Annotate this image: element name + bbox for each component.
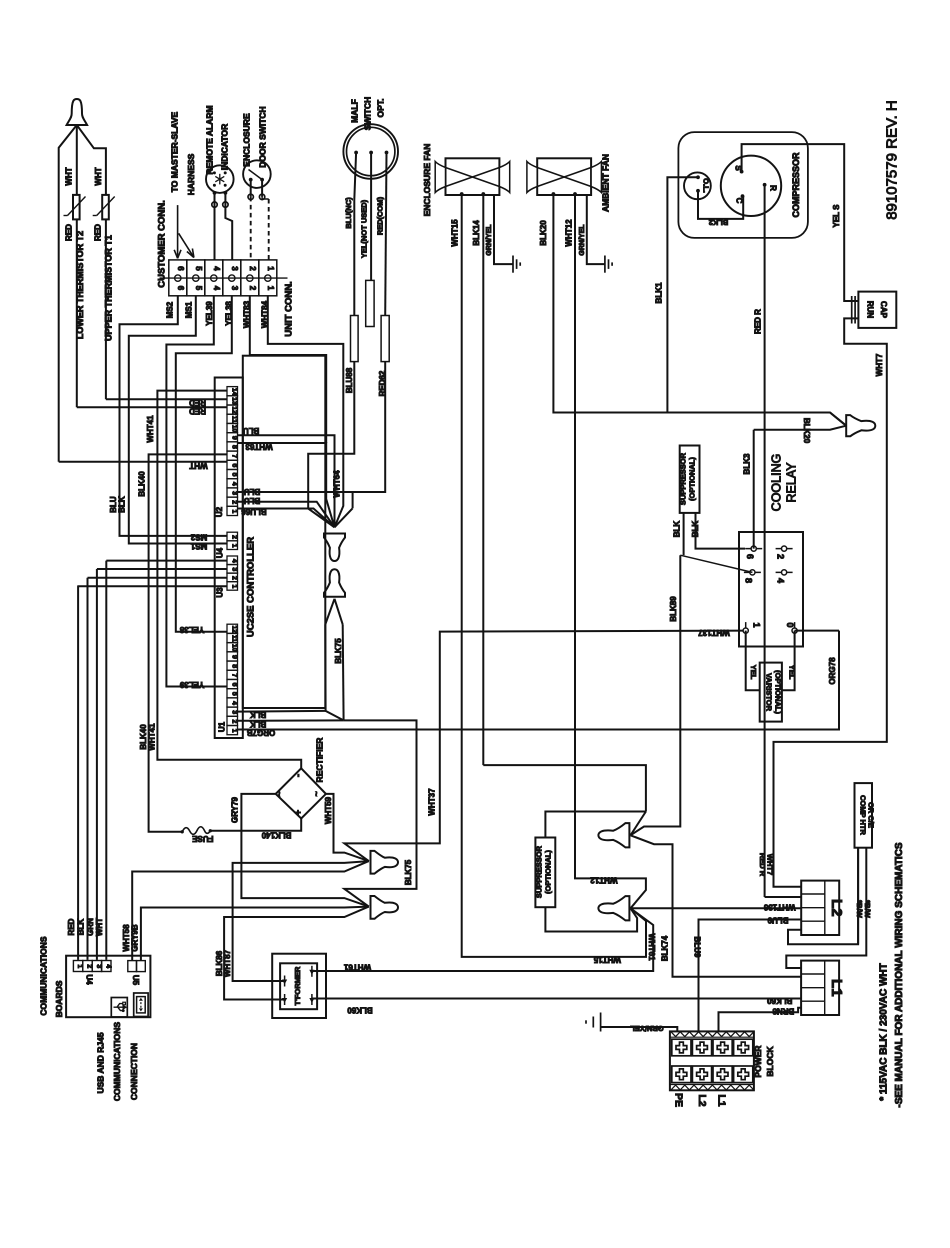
svg-text:1: 1 — [752, 622, 762, 627]
label BRN8 — [772, 1006, 794, 1015]
svg-text:5: 5 — [230, 473, 237, 477]
svg-text:BLK1: BLK1 — [655, 282, 664, 303]
svg-text:BLOCK: BLOCK — [765, 1046, 775, 1077]
svg-text:3: 3 — [230, 266, 239, 271]
label U3 — [216, 587, 225, 598]
svg-text:POWER: POWER — [753, 1045, 763, 1077]
wire BLK40 U2 pin7 — [149, 454, 227, 831]
door switch contacts — [249, 170, 265, 182]
connector U4 2-pin strip — [227, 532, 238, 549]
svg-text:MS2: MS2 — [166, 301, 175, 318]
svg-text:BLK75: BLK75 — [334, 638, 343, 664]
thermistor T2 — [64, 195, 86, 220]
label BLU pin3 — [244, 487, 261, 496]
svg-text:UC2SE CONTROLLER: UC2SE CONTROLLER — [246, 537, 257, 637]
svg-text:WHT7: WHT7 — [765, 854, 774, 875]
svg-text:7: 7 — [230, 454, 237, 458]
label BLK86 — [215, 950, 224, 976]
svg-text:ENCLOSURE FAN: ENCLOSURE FAN — [422, 144, 432, 217]
wire comms WHT — [105, 561, 107, 960]
wire U3 pin2 row — [97, 568, 227, 570]
ambient fan — [527, 158, 602, 195]
svg-text:WHT41: WHT41 — [146, 415, 155, 443]
svg-text:ORG7B: ORG7B — [247, 728, 276, 737]
connector L2 — [801, 881, 845, 935]
label U4 — [216, 547, 225, 558]
label WHT T2 — [65, 167, 74, 185]
title 89107579 REV. H — [884, 100, 901, 220]
svg-text:12: 12 — [230, 406, 237, 414]
svg-text:BLU66: BLU66 — [241, 507, 267, 516]
label BLK74 — [661, 935, 670, 961]
svg-text:RELAY: RELAY — [785, 462, 799, 503]
svg-text:BLU(NC): BLU(NC) — [344, 197, 353, 229]
svg-text:7: 7 — [230, 673, 237, 677]
label BLK75 upper — [334, 638, 343, 664]
svg-text:2: 2 — [230, 500, 237, 504]
relay pin 2 — [776, 546, 793, 559]
wire rectifier bottom BLK140 — [210, 819, 301, 831]
svg-text:YEL39: YEL39 — [179, 680, 204, 689]
svg-text:COMMUNICATIONS: COMMUNICATIONS — [112, 1022, 122, 1101]
svg-text:3: 3 — [230, 567, 237, 571]
svg-text:2: 2 — [86, 964, 93, 968]
label BLK89 — [669, 596, 678, 622]
svg-text:COMPRESSOR: COMPRESSOR — [791, 152, 801, 218]
wire BLK U1 pin3 — [238, 710, 326, 713]
label BLK U1pin2 — [250, 719, 267, 728]
wire BLK20 vertical — [553, 194, 846, 426]
cooling relay box — [739, 532, 803, 647]
svg-text:4: 4 — [212, 286, 221, 291]
label U5 — [131, 975, 140, 986]
svg-text:0: 0 — [785, 622, 795, 627]
svg-text:UPPER THERMISTOR T1: UPPER THERMISTOR T1 — [104, 235, 114, 341]
BLU88 splice rect — [351, 316, 359, 362]
compressor terminal S — [734, 165, 744, 173]
label LOWER THERMISTOR T2 — [75, 231, 85, 339]
wire BLK89 — [631, 555, 681, 835]
RED62 splice rect — [381, 316, 389, 362]
svg-text:MS1: MS1 — [185, 301, 194, 318]
label YEL S — [832, 204, 841, 228]
connector L1 — [801, 961, 845, 1015]
label COOLING — [769, 454, 783, 512]
svg-text:WHT64: WHT64 — [333, 470, 342, 498]
transformer outer box — [272, 954, 326, 1018]
svg-text:CUSTOMER CONN.: CUSTOMER CONN. — [157, 200, 168, 287]
svg-text:BLU: BLU — [244, 496, 261, 505]
wire WHT83 — [250, 296, 326, 443]
connector mid line — [160, 277, 288, 279]
label RED comms — [67, 918, 76, 935]
svg-text:BLK60: BLK60 — [347, 1006, 373, 1015]
enclosure door switch circle — [243, 160, 271, 188]
label WHT64 — [333, 470, 342, 498]
label VARISTOR — [765, 673, 774, 712]
label MALF — [350, 99, 360, 123]
wire WHT41 U2 pin14 — [157, 391, 301, 769]
label O.L. — [702, 178, 711, 193]
label MS1 at U4 — [190, 541, 207, 550]
relay pin 1 — [743, 622, 761, 639]
label B/W 2 — [863, 900, 872, 918]
svg-text:BLK: BLK — [250, 719, 267, 728]
transformer pin left1 — [282, 976, 287, 987]
relay pin 0 — [785, 622, 797, 639]
remote alarm terminal dots — [213, 191, 228, 195]
wire MS2 (BLU) — [120, 296, 228, 536]
comms U5 connector — [128, 961, 146, 972]
label SWITCH — [363, 97, 373, 131]
compressor outline — [678, 132, 808, 238]
svg-text:9: 9 — [230, 655, 237, 659]
wire T1 below resistor — [105, 219, 107, 399]
wire ORG78 pin0 — [795, 630, 839, 632]
label BLK ms — [118, 496, 127, 513]
suppressor low wire top — [545, 812, 646, 838]
label BLU pin2 — [244, 496, 261, 505]
rectifier diamond — [276, 768, 326, 818]
svg-text:BLK2: BLK2 — [709, 218, 729, 227]
svg-text:RED: RED — [189, 406, 206, 415]
svg-text:RUN: RUN — [866, 301, 875, 319]
svg-text:L2: L2 — [828, 899, 845, 917]
svg-text:4: 4 — [776, 578, 786, 583]
label WHT63 — [245, 442, 273, 451]
wire BLU66 U2 pin1 — [238, 509, 335, 528]
overload terminal dots — [696, 175, 700, 192]
svg-text:13: 13 — [230, 397, 237, 405]
wire comms GRN — [96, 569, 98, 960]
label BLU9 at L2 — [767, 916, 788, 925]
svg-text:~: ~ — [275, 791, 285, 796]
wire B/W 2 — [786, 848, 866, 968]
wire GRY9B — [141, 907, 369, 961]
wire WHT63 U2 pin8 — [238, 443, 335, 527]
suppressor low wire bottom — [545, 907, 637, 931]
enclosure fan terminals — [460, 192, 485, 196]
svg-text:*B/W: *B/W — [863, 900, 872, 918]
remote alarm lamp symbol — [213, 171, 227, 186]
funnel diag BLU88 — [308, 509, 334, 528]
svg-text:BLK: BLK — [118, 496, 127, 513]
svg-text:BLK140: BLK140 — [261, 830, 291, 839]
svg-text:OPT.: OPT. — [376, 99, 386, 118]
svg-text:REMOTE ALARM: REMOTE ALARM — [205, 105, 215, 174]
svg-text:BRN8: BRN8 — [772, 1006, 794, 1015]
label POWER — [753, 1045, 763, 1077]
label REMOTE ALARM — [205, 105, 215, 174]
label WHT61 riser — [647, 933, 656, 961]
svg-text:U4: U4 — [85, 974, 94, 985]
label OPTIONAL up — [688, 457, 697, 501]
wire switch left solid — [250, 180, 252, 197]
svg-text:PE: PE — [673, 1093, 685, 1107]
label RED R comp — [754, 309, 763, 334]
funnel diag RED62 — [335, 508, 353, 527]
wire BLK14 vertical — [482, 194, 484, 765]
label BLK sup2 — [691, 521, 700, 538]
svg-text:L1: L1 — [716, 1094, 728, 1106]
wire WHT12 vertical — [575, 194, 646, 908]
ground symbol enclosure fan — [513, 256, 520, 273]
svg-text:*B/W: *B/W — [855, 900, 864, 918]
svg-text:10: 10 — [230, 644, 237, 652]
label WHT comms — [95, 918, 104, 936]
label BLK60 horiz — [347, 1006, 373, 1015]
remote alarm connector dots — [212, 202, 228, 207]
label PE — [673, 1093, 685, 1107]
svg-text:BLU: BLU — [244, 487, 261, 496]
wire U3 pin3 row — [88, 577, 228, 579]
svg-text:MS2: MS2 — [190, 533, 207, 542]
svg-text:SWITCH: SWITCH — [363, 97, 373, 131]
svg-text:BLK74: BLK74 — [661, 935, 670, 961]
svg-text:YEL: YEL — [788, 665, 797, 680]
svg-text:14: 14 — [230, 388, 237, 396]
label CUSTOMER CONN. — [157, 200, 168, 287]
suppressor up wire right — [696, 513, 746, 549]
svg-text:BLU9: BLU9 — [692, 937, 701, 958]
svg-text:DOOR SWITCH: DOOR SWITCH — [258, 106, 268, 167]
wire PE to ground — [601, 1027, 678, 1031]
run cap box — [858, 292, 896, 328]
svg-text:BLK14: BLK14 — [472, 220, 481, 246]
label MS2 at U4 — [190, 533, 207, 542]
suppressor up wire left — [683, 513, 685, 555]
svg-text:U5: U5 — [131, 975, 140, 986]
label MS2 — [166, 301, 175, 318]
svg-text:BLU88: BLU88 — [345, 367, 354, 393]
svg-text:YEL S: YEL S — [832, 204, 841, 228]
label BLU66 — [241, 507, 267, 516]
svg-text:INDICATOR: INDICATOR — [220, 124, 230, 170]
svg-text:BLK: BLK — [673, 521, 682, 538]
svg-text:GRN/YEL: GRN/YEL — [579, 224, 586, 256]
wire BLK86 — [224, 907, 369, 1000]
enclosure fan — [435, 158, 510, 195]
svg-text:GRN/YEL: GRN/YEL — [486, 224, 493, 256]
funnel C BLK14 diag — [631, 812, 646, 836]
svg-text:HARNESS: HARNESS — [186, 153, 196, 195]
wire MS1 (BLK) — [129, 296, 227, 544]
wire WHT15 vertical — [462, 194, 646, 957]
label ORG7B — [247, 728, 276, 737]
wire RED62 lower — [353, 362, 386, 509]
label ENCLOSURE — [242, 113, 252, 167]
label T'FORMER — [293, 966, 302, 1005]
svg-text:11: 11 — [230, 416, 237, 423]
svg-text:RED: RED — [67, 918, 76, 935]
relay pin 6 — [745, 546, 762, 559]
wire BLU U2 pin9 to WHT64 bullet — [238, 435, 335, 527]
label BLK40 upper — [137, 471, 146, 497]
svg-text:4: 4 — [230, 701, 237, 705]
wire WHT59 — [326, 794, 369, 861]
label YEL left — [749, 665, 758, 680]
label DOOR SWITCH — [258, 106, 268, 167]
svg-text:FUSE: FUSE — [191, 834, 213, 843]
svg-text:GRN: GRN — [86, 918, 95, 936]
svg-text:O.L.: O.L. — [702, 178, 711, 193]
connector U1 12-pin strip — [227, 624, 238, 735]
label SUPPRESSOR low — [535, 845, 544, 898]
label GRY9B — [131, 924, 140, 951]
wire YEL(NOT USED) — [370, 153, 372, 281]
label WHT61 horiz — [343, 962, 371, 971]
wire RED R full drop — [764, 185, 766, 897]
compressor motor circle — [721, 156, 781, 216]
svg-text:WHT15: WHT15 — [451, 219, 460, 247]
label ENCLOSURE FAN — [422, 144, 432, 217]
label BLK75 lower — [404, 859, 413, 885]
svg-text:UNIT CONN.: UNIT CONN. — [284, 281, 295, 336]
wire BLK75 to lower bullet — [344, 720, 417, 906]
label TO MASTER-SLAVE — [170, 111, 180, 192]
door switch connector dots — [248, 194, 265, 199]
wire YEL S from terminal S — [742, 144, 859, 301]
ground symbol PE — [586, 1013, 601, 1032]
wire probe to T2 WHT return — [59, 125, 77, 462]
svg-text:WHT: WHT — [65, 167, 74, 185]
svg-text:SUPPRESSOR: SUPPRESSOR — [535, 845, 544, 898]
label L1 pb — [716, 1094, 728, 1106]
compressor overload circle — [684, 172, 711, 199]
svg-text:ORG78: ORG78 — [828, 657, 837, 685]
label COMMUNICATIONS — [39, 936, 49, 1015]
svg-text:10: 10 — [230, 425, 237, 433]
svg-text:9: 9 — [230, 436, 237, 440]
label WHT37 — [428, 788, 437, 816]
label USB AND RJ45 — [96, 1032, 106, 1093]
label BLK60 L1 — [766, 996, 792, 1005]
svg-text:U4: U4 — [216, 547, 225, 558]
svg-text:WHT63: WHT63 — [245, 442, 273, 451]
svg-text:1: 1 — [230, 729, 237, 733]
wire WHT136 — [631, 907, 802, 909]
wire BLU(NC) — [354, 153, 356, 316]
harness arrow head pin 6 — [174, 250, 181, 258]
svg-text:WHT59: WHT59 — [324, 796, 333, 824]
svg-text:C: C — [735, 198, 744, 204]
label U2 — [215, 506, 224, 517]
svg-text:2: 2 — [248, 286, 257, 291]
label CONNECTION — [129, 1043, 139, 1100]
wire BRN8 — [719, 1008, 802, 1032]
label COMP HTR — [859, 795, 868, 835]
wire switch right solid — [261, 180, 263, 197]
svg-text:VARISTOR: VARISTOR — [765, 673, 774, 712]
wire BLK89 diag to pin8 — [680, 555, 752, 572]
label WHT83 at conn — [243, 300, 252, 328]
svg-text:3: 3 — [230, 710, 237, 714]
label WHT7 at L2v — [765, 854, 774, 875]
comms boards box — [66, 956, 150, 1018]
bullet mate funnel wires — [325, 599, 343, 721]
svg-text:(OPTIONAL): (OPTIONAL) — [688, 457, 697, 501]
wire U3 pin1 row — [106, 560, 227, 562]
svg-text:5: 5 — [194, 286, 203, 291]
wire comms BLK — [87, 578, 89, 960]
label YEL38 at conn — [225, 301, 234, 326]
note SEE MANUAL — [894, 842, 905, 1108]
svg-text:4: 4 — [104, 964, 111, 968]
label BLU ms — [109, 496, 118, 513]
label WHT58 — [122, 924, 131, 952]
wire WHT to U2 pin6 — [59, 461, 227, 463]
label COMPRESSOR — [791, 152, 801, 218]
svg-text:GRY9B: GRY9B — [131, 924, 140, 951]
svg-text:WHT: WHT — [189, 461, 207, 470]
svg-text:1: 1 — [266, 286, 275, 291]
svg-text:BLK60: BLK60 — [766, 996, 792, 1005]
wire YEL39 — [166, 296, 227, 687]
svg-text:1: 1 — [230, 585, 237, 589]
svg-text:BLK: BLK — [691, 521, 700, 538]
label RED T2 — [65, 224, 74, 241]
svg-text:2: 2 — [230, 576, 237, 580]
run cap plates — [852, 296, 855, 324]
svg-text:11: 11 — [230, 635, 237, 642]
svg-text:~: ~ — [312, 791, 322, 796]
label RED pin13 — [189, 398, 206, 407]
label BLK20 fan — [539, 220, 548, 246]
svg-text:CONNECTION: CONNECTION — [129, 1043, 139, 1100]
label UC2SE CONTROLLER — [246, 537, 257, 637]
svg-text:* 115VAC BLK / 230VAC WHT: * 115VAC BLK / 230VAC WHT — [879, 963, 890, 1100]
wire probe to T1 thermistor — [77, 125, 106, 195]
svg-text:1: 1 — [266, 266, 275, 271]
label YEL right — [788, 665, 797, 680]
wire WHT61 — [312, 908, 653, 971]
label BLK140 — [261, 830, 291, 839]
label BLK1 — [655, 282, 664, 303]
note 115VAC — [879, 963, 890, 1100]
rectifier pin marks — [275, 774, 322, 815]
svg-text:OR C/E: OR C/E — [867, 802, 876, 828]
svg-text:RED R: RED R — [754, 309, 763, 334]
svg-text:BOARDS: BOARDS — [54, 980, 64, 1017]
svg-text:1: 1 — [230, 544, 237, 548]
label BLU pin9 — [243, 426, 260, 435]
svg-text:+: + — [293, 810, 303, 815]
bullet D WHT — [598, 896, 629, 920]
label MS1 — [185, 301, 194, 318]
svg-text:BLK75: BLK75 — [404, 859, 413, 885]
label YEL(NOT USED) — [360, 199, 369, 258]
label BLK2 — [709, 218, 729, 227]
label WHT137 — [698, 628, 730, 637]
wire switch right jog — [262, 197, 269, 199]
wire GRY79 — [241, 794, 368, 907]
svg-text:BLK89: BLK89 — [669, 596, 678, 622]
svg-text:YEL: YEL — [749, 665, 758, 680]
wire run cap bottom WHT7 — [774, 318, 887, 886]
svg-text:BLK86: BLK86 — [215, 950, 224, 976]
suppressor box upper — [680, 446, 700, 513]
svg-text:RED: RED — [189, 398, 206, 407]
svg-text:2: 2 — [230, 535, 237, 539]
label OPT. — [376, 99, 386, 118]
wire BLU U2 pin2 — [238, 502, 335, 528]
wire comms RED — [77, 586, 79, 960]
transformer pin right1 — [309, 966, 314, 977]
svg-text:6: 6 — [745, 554, 755, 559]
label BLK20 — [802, 418, 811, 444]
fuse squiggle — [181, 827, 213, 835]
wire WHT87 — [233, 861, 369, 981]
